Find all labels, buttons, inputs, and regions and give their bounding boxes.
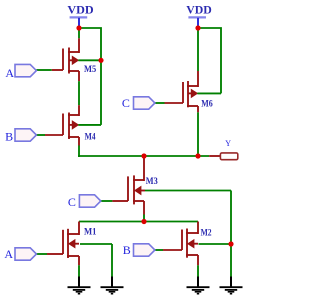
svg-text:VDD: VDD bbox=[67, 3, 94, 17]
svg-text:Y: Y bbox=[225, 139, 231, 148]
svg-text:C: C bbox=[68, 195, 76, 209]
svg-text:B: B bbox=[123, 243, 131, 257]
svg-text:M6: M6 bbox=[201, 100, 213, 110]
svg-text:M5: M5 bbox=[84, 65, 96, 75]
svg-text:C: C bbox=[122, 96, 130, 110]
svg-text:M2: M2 bbox=[201, 229, 212, 239]
svg-text:A: A bbox=[5, 66, 14, 80]
svg-text:VDD: VDD bbox=[186, 3, 212, 17]
svg-text:M4: M4 bbox=[85, 133, 96, 143]
svg-text:M1: M1 bbox=[84, 227, 97, 237]
svg-text:A: A bbox=[4, 247, 13, 261]
svg-text:M3: M3 bbox=[146, 177, 158, 187]
svg-text:B: B bbox=[5, 129, 13, 143]
